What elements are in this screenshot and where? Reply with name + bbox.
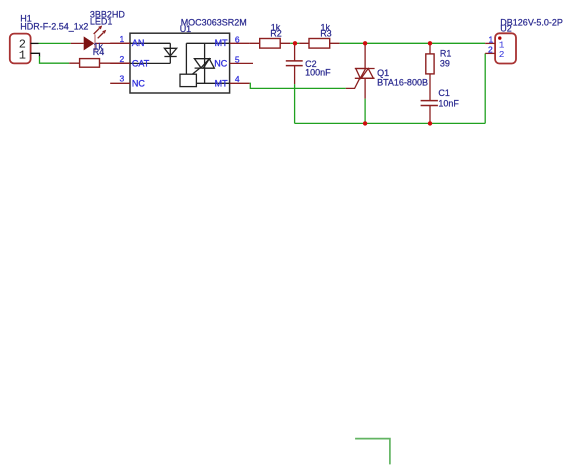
- connector U2 labels: [500, 17, 563, 33]
- resistor R1 labels: [440, 49, 452, 69]
- op-amp U1 body: [130, 33, 230, 93]
- svg-text:NC: NC: [214, 58, 227, 68]
- svg-text:NC: NC: [132, 78, 145, 88]
- svg-text:2: 2: [499, 49, 505, 60]
- wire bus to U2 pin 2: [484, 53, 486, 123]
- capacitor C2 top lead: [294, 43, 296, 61]
- svg-text:AN: AN: [132, 38, 145, 48]
- U2 pin numbers: [488, 35, 494, 55]
- resistor R2 leads: [250, 42, 291, 44]
- U1 internal triac: [180, 43, 230, 86]
- svg-text:1: 1: [19, 48, 26, 62]
- U1 pin 5 stub: [230, 62, 253, 64]
- svg-text:3: 3: [119, 74, 124, 84]
- LED1 leads: [71, 42, 130, 44]
- wire Q1 to bottom bus: [364, 99, 366, 124]
- svg-text:2: 2: [488, 45, 493, 55]
- op-amp U1 labels: [180, 18, 247, 34]
- svg-text:C1: C1: [438, 88, 450, 98]
- LED1 emission arrows: [94, 26, 107, 39]
- svg-text:39: 39: [440, 59, 450, 69]
- capacitor C2 bottom lead: [294, 66, 296, 85]
- svg-text:LED1: LED1: [90, 17, 113, 27]
- connector H1 body: [10, 34, 31, 64]
- U2 pin 1 marker dot: [498, 36, 501, 39]
- junction R2/R3/C2: [293, 41, 297, 45]
- svg-text:HDR-F-2.54_1x2: HDR-F-2.54_1x2: [20, 21, 88, 31]
- svg-text:U1: U1: [180, 24, 192, 34]
- svg-text:MT: MT: [215, 78, 228, 88]
- wire R1 to C1: [429, 74, 431, 101]
- U1 pin 1 stub: [110, 42, 130, 44]
- U1 pin names: [132, 38, 228, 88]
- resistor R1 body: [426, 54, 434, 74]
- svg-text:100nF: 100nF: [305, 68, 331, 78]
- LED1 triangle: [84, 36, 95, 50]
- svg-text:4: 4: [235, 74, 240, 84]
- connector U2 body: [495, 33, 516, 63]
- svg-text:R4: R4: [93, 47, 105, 57]
- resistor R3 leads: [299, 42, 340, 44]
- capacitor C2 plates: [286, 61, 303, 66]
- svg-text:1: 1: [119, 34, 124, 44]
- svg-text:6: 6: [235, 34, 240, 44]
- resistor R1 top lead: [429, 43, 431, 54]
- resistor R3 labels: [320, 22, 332, 38]
- U2 pin 2 stub: [485, 52, 495, 54]
- capacitor C1 plates: [421, 101, 438, 106]
- svg-text:U2: U2: [500, 24, 512, 34]
- svg-text:R3: R3: [320, 29, 332, 39]
- svg-text:CAT: CAT: [132, 58, 150, 68]
- resistor R4 leads: [69, 62, 130, 64]
- svg-text:MT: MT: [215, 38, 228, 48]
- connector H1 labels: [20, 14, 88, 32]
- svg-text:R1: R1: [440, 49, 452, 59]
- capacitor C1 bottom lead: [429, 106, 431, 124]
- triac Q1 labels: [377, 68, 428, 87]
- svg-text:2: 2: [119, 54, 124, 64]
- U1 pin 4 stub: [230, 82, 250, 84]
- Q1 gate lead: [346, 78, 360, 88]
- unfinished wire bottom: [355, 439, 390, 465]
- U1 pin 6 stub: [230, 42, 250, 44]
- svg-text:R2: R2: [270, 29, 282, 39]
- LED1 labels: [90, 10, 126, 27]
- wire H1.2 to LED1 anode: [39, 42, 71, 44]
- LED1 cathode bar: [94, 35, 96, 51]
- bottom bus wire: [295, 122, 486, 124]
- wire H1.1 to R4: [40, 56, 70, 63]
- U2 pin names: [499, 39, 505, 60]
- wire C2 to bottom bus: [294, 84, 296, 123]
- wire U1 pin4 to Q1 gate: [250, 83, 346, 88]
- wire R2 to junction: [290, 42, 299, 44]
- U1 pin 2 stub: [110, 62, 130, 64]
- H1 pin 2 stub: [31, 42, 39, 44]
- wire R3 to U2 pin 1: [340, 42, 486, 44]
- svg-text:5: 5: [235, 54, 240, 64]
- resistor R2 body: [260, 39, 281, 49]
- junction C1 bottom: [428, 121, 432, 125]
- resistor R2 labels: [270, 22, 282, 38]
- resistor R4 body: [80, 59, 100, 68]
- resistor R3 body: [309, 39, 330, 49]
- capacitor C1 labels: [438, 88, 459, 108]
- H1 pin 1 stub: [31, 53, 40, 56]
- U1 internal LED diode: [130, 43, 177, 63]
- svg-text:1: 1: [488, 35, 493, 45]
- capacitor C2 labels: [305, 59, 331, 78]
- svg-text:10nF: 10nF: [438, 99, 459, 109]
- U1 pin numbers: [119, 34, 239, 84]
- U2 pin 1 stub: [485, 42, 495, 44]
- svg-text:BTA16-800B: BTA16-800B: [377, 77, 428, 87]
- junction Q1 bottom: [363, 121, 367, 125]
- triac Q1: [355, 43, 375, 98]
- junction R1 top: [428, 41, 432, 45]
- junction Q1 top: [363, 41, 367, 45]
- U1 pin 3 stub: [110, 82, 130, 84]
- resistor R4 labels: [93, 41, 105, 57]
